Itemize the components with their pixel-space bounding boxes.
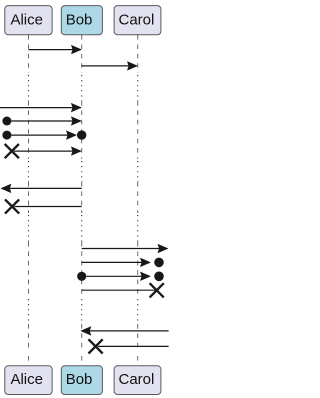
message 13: Bob <-] [81, 327, 169, 336]
message 10: Bob ->o] [82, 258, 164, 268]
message 12: Bob ->x] [82, 283, 164, 297]
message 14: Bob x<-] [89, 339, 169, 353]
message 4: [o-> Bob [2, 117, 81, 126]
message 3: [-> Bob [0, 103, 81, 112]
message 8: [x<- Bob [5, 199, 82, 213]
svg-text:Bob: Bob [66, 371, 93, 388]
message 11: Bob o->o] [77, 272, 164, 282]
message 1: Alice -> Bob [29, 45, 82, 54]
message 2: Bob -> Carol [82, 62, 138, 71]
participant Alice bottom box [5, 366, 52, 395]
lifeline Bob [81, 35, 83, 366]
message 7: [<- Bob [1, 184, 82, 193]
svg-text:Bob: Bob [66, 11, 93, 28]
message 5: [o->o Bob [2, 130, 86, 139]
svg-text:Carol: Carol [119, 11, 155, 28]
participant Bob top box [61, 6, 102, 35]
message 9: Bob ->] [82, 244, 168, 253]
participant Carol bottom box [114, 366, 161, 395]
svg-text:Carol: Carol [119, 371, 155, 388]
participant Carol top box [114, 6, 161, 35]
message 6: [x-> Bob [5, 144, 82, 158]
lifeline Alice [28, 35, 30, 366]
participant Bob bottom box [61, 366, 102, 395]
participant Alice top box [5, 6, 52, 35]
svg-text:Alice: Alice [10, 11, 43, 28]
svg-text:Alice: Alice [10, 371, 43, 388]
lifeline Carol [137, 35, 139, 366]
